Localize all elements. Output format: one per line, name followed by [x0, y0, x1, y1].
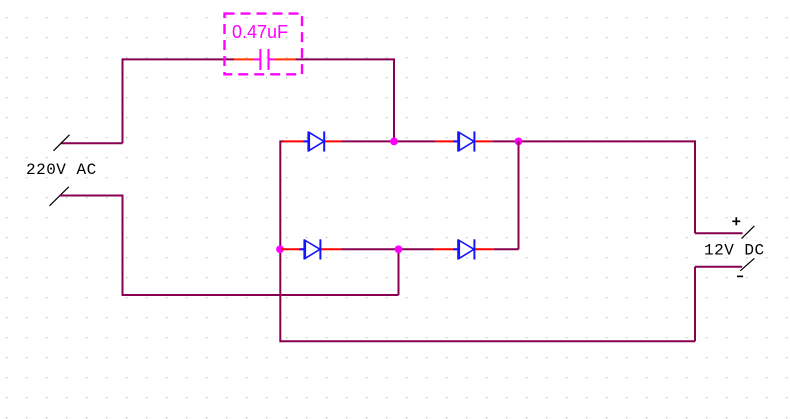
- wire top horizontal right segment: [295, 58, 395, 60]
- wire vertical below mid dot: [398, 249, 400, 295]
- junction dot B: [515, 138, 523, 146]
- wire top row right segment: [492, 140, 695, 142]
- diode D3: [299, 239, 320, 259]
- svg-text:0.47uF: 0.47uF: [232, 22, 288, 42]
- minus sign: [737, 275, 743, 277]
- terminal slash plus: [742, 226, 755, 239]
- wire minus terminal horizontal: [695, 266, 742, 268]
- wire vertical below dot B: [518, 141, 520, 249]
- terminal slash 220V AC bottom: [50, 187, 69, 206]
- wire bridge top-left corner: [280, 140, 284, 342]
- wire terminal 1 horizontal: [61, 142, 123, 144]
- svg-text:12V DC: 12V DC: [704, 242, 765, 260]
- capacitor C1 pin 1: [234, 58, 254, 60]
- terminal slash 220V AC top: [54, 135, 70, 151]
- diode D1 pin leads: [283, 140, 342, 142]
- wire terminal 2 horizontal: [60, 195, 123, 197]
- plus sign: [732, 217, 740, 225]
- wire right vertical lower: [694, 267, 696, 342]
- diode D1: [303, 131, 324, 151]
- diode D2 pin leads: [435, 140, 492, 142]
- diode D3 pin leads: [281, 248, 342, 250]
- wire plus terminal horizontal: [695, 232, 743, 234]
- terminal slash minus: [740, 258, 754, 271]
- diode D4 pin leads: [434, 248, 494, 250]
- wire left vertical lower: [122, 195, 124, 297]
- capacitor C1 pin 2: [274, 58, 295, 60]
- junction dot C: [276, 245, 284, 253]
- wire bottom horizontal y341: [280, 340, 695, 342]
- wire left vertical upper: [122, 58, 124, 143]
- wire bottom row middle: [342, 248, 435, 250]
- wire bottom row right segment: [494, 248, 519, 250]
- wire top row middle: [342, 140, 436, 142]
- svg-text:220V AC: 220V AC: [26, 161, 97, 179]
- junction dot D: [395, 245, 403, 253]
- diode D2: [453, 131, 474, 151]
- wire right vertical upper: [694, 140, 696, 233]
- capacitor C1 body: [254, 49, 274, 70]
- wire bottom horizontal y295: [123, 294, 399, 296]
- diode D4: [453, 239, 474, 259]
- junction dot A: [390, 138, 398, 146]
- wire top horizontal left segment: [122, 58, 235, 60]
- wire vertical above dot A: [393, 59, 395, 141]
- capacitor C1 selection box: [225, 14, 303, 75]
